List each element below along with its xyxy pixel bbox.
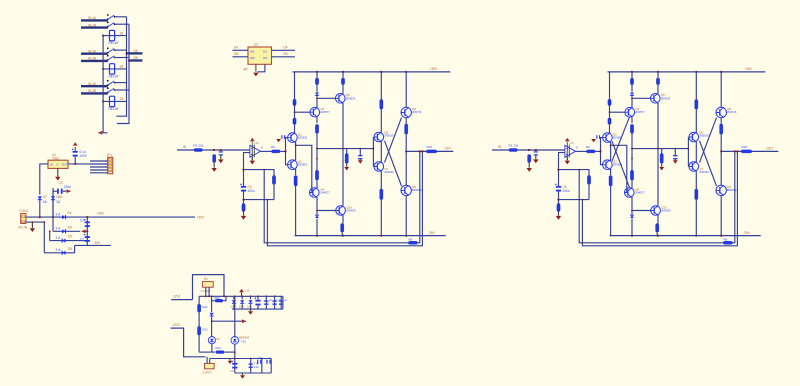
- svg-text:R1 22k: R1 22k: [194, 143, 204, 147]
- svg-text:470u: 470u: [258, 356, 264, 360]
- svg-text:2N3716: 2N3716: [412, 110, 422, 114]
- wire psu row352: [199, 351, 215, 353]
- svg-text:OUT: OUT: [445, 147, 452, 151]
- svg-text:IN: IN: [50, 163, 53, 167]
- value R20: [215, 296, 221, 300]
- svg-text:U2: U2: [254, 43, 258, 47]
- net label U2 out1: [283, 46, 288, 50]
- svg-text:2N3716: 2N3716: [727, 110, 737, 114]
- wire cross 1R: [700, 141, 717, 186]
- wire col5 dL: [405, 196, 407, 236]
- resistor R6L: [293, 99, 296, 105]
- wire QB QC linkR: [610, 142, 612, 161]
- power port +12V psu: [239, 289, 244, 292]
- wire to basesR: [595, 150, 600, 152]
- refdes Qps1: [215, 337, 220, 341]
- value C4: [80, 150, 86, 154]
- junction fb midR: [557, 199, 559, 201]
- wire U1 gnd: [57, 168, 59, 176]
- junction row358 b: [250, 358, 252, 360]
- refdes C6R: [563, 185, 567, 189]
- wire col1 cR: [609, 124, 611, 133]
- wire row4 drop: [43, 222, 45, 253]
- refdes Dps2: [239, 305, 244, 309]
- wire rect row4: [44, 245, 74, 252]
- wire col4 aR: [695, 72, 697, 100]
- wire select out A: [127, 52, 143, 54]
- svg-text:IN2: IN2: [250, 56, 255, 60]
- value R5L: [409, 237, 413, 241]
- diode D8: [62, 251, 65, 255]
- wire Rbias stemR: [661, 149, 663, 154]
- transistor Q8R: [716, 107, 726, 118]
- value Q4L: [320, 191, 330, 195]
- diode D9L: [315, 92, 319, 95]
- wire JP1 pin1: [90, 160, 108, 162]
- ground CON1: [30, 228, 35, 232]
- wire fb tap1bR: [733, 151, 735, 242]
- junction rail top x381.3L: [380, 71, 382, 73]
- wire QD base pathL: [296, 145, 312, 192]
- wire R2 botR: [528, 163, 530, 168]
- junction relay K2 left: [102, 68, 104, 70]
- svg-text:2N4577: 2N4577: [635, 110, 645, 114]
- diode D9R: [630, 92, 634, 95]
- value C3: [64, 185, 72, 189]
- junction base midL: [284, 150, 286, 152]
- relay coil K1: [110, 30, 115, 40]
- resistor R14L: [405, 124, 408, 134]
- value R15R: [742, 145, 748, 149]
- refdes D12: [239, 336, 250, 340]
- junction fb topL: [242, 169, 244, 171]
- fuse label 2A row1: [56, 212, 62, 216]
- svg-text:D4: D4: [68, 211, 72, 215]
- IC U2: [248, 47, 272, 64]
- refdes Q8L: [412, 107, 416, 111]
- wire col3 bR: [657, 85, 659, 94]
- svg-text:2 A: 2 A: [56, 248, 62, 252]
- svg-text:+35V: +35V: [745, 67, 753, 71]
- transistor Q1L: [288, 133, 298, 143]
- wire relay common vertical: [103, 36, 107, 133]
- net label IN1A: [88, 16, 97, 20]
- capacitor C1: [84, 219, 90, 227]
- wire K1 pin b: [208, 287, 210, 296]
- wire X basesL: [372, 137, 374, 167]
- junction CON1 pin2: [32, 221, 34, 223]
- ground op-ampL: [250, 161, 255, 165]
- capacitor Q1 baseL: [281, 135, 285, 139]
- svg-text:2-SPDT: 2-SPDT: [202, 370, 212, 374]
- net label OUTR: [766, 147, 773, 151]
- refdes Q3R: [635, 107, 639, 111]
- svg-text:2N4033: 2N4033: [661, 209, 671, 213]
- wire R20 row: [212, 300, 215, 302]
- svg-text:1B: 1B: [120, 97, 124, 101]
- svg-text:R3: R3: [586, 145, 590, 149]
- capacitor CinL: [219, 151, 223, 155]
- svg-text:2N4577: 2N4577: [635, 191, 645, 195]
- fuse label 2A row4: [56, 248, 62, 252]
- wire col2 bL: [316, 85, 318, 92]
- wire col5 cL: [405, 134, 407, 185]
- value R1L: [194, 143, 204, 147]
- svg-text:R23: R23: [216, 346, 222, 350]
- resistor R10L: [315, 124, 318, 133]
- resistor R23: [216, 351, 224, 354]
- svg-text:D11: D11: [215, 337, 220, 341]
- svg-text:R22: R22: [203, 327, 209, 331]
- diode D6: [62, 229, 65, 233]
- wire QA baseL: [295, 111, 311, 113]
- svg-text:1N4: 1N4: [247, 305, 252, 309]
- refdes Q8R: [727, 107, 731, 111]
- wire op-amp vccL: [251, 142, 253, 160]
- svg-text:RELAY: RELAY: [109, 75, 120, 79]
- transistor Q2L: [288, 160, 298, 170]
- svg-text:2N5551: 2N5551: [298, 136, 308, 140]
- resistor R6R: [608, 99, 611, 105]
- fuse label 2A row2: [56, 227, 62, 231]
- svg-text:JP1: JP1: [107, 153, 113, 157]
- label relay K1 value: [109, 41, 120, 45]
- wire col1 bR: [609, 106, 611, 119]
- wire col1 cL: [294, 124, 296, 133]
- net label inputL: [183, 145, 187, 149]
- transistor Q1R: [603, 133, 613, 143]
- junction tap2 cornerR: [582, 199, 584, 201]
- svg-text:MBR360: MBR360: [239, 336, 250, 340]
- wire psu colL c: [198, 335, 200, 352]
- ground R4L: [241, 216, 246, 220]
- wire arrow row: [212, 320, 243, 322]
- wire K1 feed: [171, 299, 192, 301]
- resistor R9R: [630, 78, 633, 85]
- power port +12V arrow: [73, 142, 78, 145]
- transistor Q5R: [651, 94, 661, 104]
- wire fb verticalL: [244, 153, 250, 187]
- wire col3 bL: [342, 85, 344, 94]
- power port 0V arrow: [81, 230, 86, 234]
- ground bias bR: [673, 160, 678, 163]
- wire cross 2L: [385, 118, 402, 163]
- transistor Q6R: [689, 132, 699, 142]
- svg-text:IN-3B: IN-3B: [88, 89, 96, 93]
- wire Dps3 top: [250, 296, 252, 299]
- refdes D8A: [56, 195, 63, 199]
- wire col4 cR: [695, 142, 697, 163]
- power port arrow right: [242, 319, 247, 323]
- svg-text:12V1: 12V1: [173, 295, 181, 299]
- net label -VL: [428, 231, 436, 235]
- wire psu colL b: [198, 312, 200, 326]
- wire input 2A: [81, 53, 108, 55]
- refdes D7: [43, 195, 47, 199]
- junction output nodeR: [720, 150, 722, 152]
- value D8A: [56, 200, 61, 204]
- transistor Q2R: [603, 160, 613, 170]
- value Q1R: [613, 136, 623, 140]
- label relay K2: [120, 65, 124, 69]
- value Cps3b: [254, 365, 259, 369]
- connector JP1 header: [108, 157, 113, 173]
- net label OUTL: [445, 147, 452, 151]
- wire psu colL a: [198, 296, 200, 304]
- switch S2B: [107, 55, 116, 61]
- capacitor Cbank3: [279, 300, 283, 304]
- net label +V mid: [97, 212, 105, 216]
- svg-text:100V: 100V: [80, 154, 88, 158]
- wire outputL: [406, 150, 426, 152]
- svg-text:2 A: 2 A: [56, 212, 62, 216]
- net label SEL-A: [134, 49, 139, 53]
- capacitor C4 bypass: [72, 149, 78, 157]
- diode D4: [62, 215, 65, 219]
- wire output bL: [437, 150, 454, 152]
- junction bias bL: [359, 148, 361, 150]
- refdes Cps2: [230, 369, 234, 373]
- junction bias cL: [316, 148, 318, 150]
- wire -V railL: [295, 235, 446, 237]
- value C6L: [248, 189, 255, 193]
- svg-text:2N5551: 2N5551: [298, 163, 308, 167]
- value Cps3: [254, 361, 259, 365]
- value Q5L: [346, 96, 356, 100]
- wire col4 dR: [695, 171, 697, 189]
- wire psu colD: [261, 359, 263, 374]
- transistor Q9L: [401, 185, 411, 196]
- refdes Q5L: [346, 93, 350, 97]
- junction QD base pathL: [295, 144, 297, 146]
- wire col2 fR: [631, 197, 633, 214]
- refdes Q2L: [298, 160, 302, 164]
- net label +12V: [245, 288, 250, 292]
- value Q3R: [635, 110, 645, 114]
- svg-text:C10: C10: [254, 365, 259, 369]
- svg-text:-35V: -35V: [743, 231, 751, 235]
- wire R18 botL: [273, 184, 275, 199]
- wire first cross 1R: [612, 141, 630, 187]
- ground U1: [55, 177, 60, 181]
- junction row1 D7col: [39, 216, 41, 218]
- junction relay K1 left: [102, 35, 104, 37]
- net label -V rail: [94, 241, 102, 245]
- wire psu rail1: [199, 295, 283, 297]
- label relay K3 value: [109, 107, 120, 111]
- junction rail bot x406.2L: [405, 235, 407, 237]
- wire col2 eR: [631, 133, 633, 170]
- wire input 1A: [81, 19, 108, 21]
- wire bias rowL: [317, 148, 373, 150]
- connector CON1: [21, 214, 26, 224]
- wire C3 right: [63, 190, 67, 192]
- junction rail bot x406.2R: [720, 235, 722, 237]
- resistor R13L: [380, 189, 383, 200]
- junction fb out aR: [734, 150, 736, 152]
- wire Rbias gnd stemR: [661, 163, 663, 167]
- junction colM row: [211, 320, 213, 322]
- net label U2 pin2: [234, 52, 238, 56]
- wire rail2 gnd stem: [250, 309, 252, 311]
- wire rect row3: [50, 240, 88, 242]
- net label -VR: [743, 231, 751, 235]
- svg-text:2N4033: 2N4033: [699, 170, 709, 174]
- wire col2 eL: [316, 133, 318, 170]
- value Q1L: [298, 136, 308, 140]
- resistor R10BR: [630, 170, 633, 180]
- junction tap1 cornerR: [578, 169, 580, 171]
- ground R2R: [527, 168, 532, 172]
- wire col1 bL: [294, 106, 296, 119]
- junction bus A group2: [125, 52, 127, 54]
- refdes Q5R: [661, 93, 665, 97]
- wire col4 eL: [380, 200, 382, 236]
- label relay K3: [120, 97, 124, 101]
- junction rail bot x343R: [657, 235, 659, 237]
- refdes Q4L: [320, 187, 324, 191]
- junction QA base nodeR: [609, 111, 611, 113]
- svg-text:1B: 1B: [120, 65, 124, 69]
- wire col1 dL: [295, 169, 297, 175]
- refdes K1: [204, 277, 208, 281]
- label relay K1: [120, 31, 124, 35]
- svg-text:220u: 220u: [64, 185, 72, 189]
- net label +VL: [430, 67, 438, 71]
- power port AGND left arrow: [98, 131, 103, 135]
- capacitor C6L: [240, 184, 246, 192]
- junction col2 midR: [631, 158, 633, 160]
- wire fb tap1L: [244, 170, 275, 176]
- diode Dps4: [210, 313, 214, 316]
- ground bias aR: [659, 167, 664, 170]
- value C6R: [563, 189, 570, 193]
- resistor R7R: [608, 118, 611, 124]
- svg-text:C1: C1: [80, 219, 84, 223]
- wire op-amp veeL: [251, 157, 253, 160]
- svg-text:12V2: 12V2: [172, 323, 180, 327]
- voltage regulator U1 7812: [48, 160, 68, 168]
- junction rail bot x343L: [342, 235, 344, 237]
- junction rail top x343R: [657, 71, 659, 73]
- capacitor C2: [84, 234, 90, 242]
- ground psu bottom: [240, 375, 245, 378]
- resistor R18 feedbackR: [587, 175, 590, 184]
- wire C4 to out: [74, 157, 76, 164]
- wire input 2R: [518, 149, 565, 151]
- capacitor C6R: [555, 184, 561, 192]
- wire C1C2 column: [86, 217, 88, 245]
- resistor R17L: [341, 224, 344, 233]
- svg-text:IN1: IN1: [250, 49, 255, 53]
- resistor R5 feedbackR: [723, 241, 732, 244]
- refdes Q1L: [298, 132, 302, 136]
- label U2 type: [244, 67, 249, 71]
- wire Q10 baseL: [317, 210, 336, 212]
- svg-text:+35V: +35V: [97, 212, 105, 216]
- value Q3L: [320, 110, 330, 114]
- junction rail1 x209.1: [208, 295, 210, 297]
- value Q10R: [661, 209, 671, 213]
- svg-text:AC-IN: AC-IN: [19, 226, 28, 230]
- junction rail bot x317L: [316, 235, 318, 237]
- wire -V railR: [610, 235, 761, 237]
- wire select out B: [129, 59, 142, 61]
- refdes Q10R: [661, 205, 667, 209]
- wire first cross 2R: [612, 117, 630, 161]
- wire inputL: [177, 149, 194, 151]
- capacitor Cps4: [257, 360, 261, 364]
- wire fb down1R: [579, 170, 723, 243]
- resistor R2R: [528, 155, 531, 163]
- resistor R3L: [272, 150, 281, 153]
- svg-text:4R: 4R: [244, 67, 249, 71]
- net label IN2B: [88, 57, 96, 61]
- junction X baseR: [688, 148, 690, 150]
- svg-text:R15: R15: [742, 145, 748, 149]
- relay K1 coil box: [202, 282, 213, 288]
- refdes C2: [80, 237, 84, 241]
- junction rail top x381.3R: [695, 71, 697, 73]
- value Q4R: [635, 191, 645, 195]
- refdes Q7L: [384, 167, 388, 171]
- wire op-amp outL: [261, 150, 272, 152]
- wire S3A common to bus: [115, 82, 127, 84]
- wire col1 dR: [610, 169, 612, 175]
- resistor R20: [215, 299, 223, 302]
- wire col4 bR: [695, 109, 697, 133]
- wire col3 aL: [342, 72, 344, 78]
- wire row3 drop: [49, 231, 51, 240]
- junction rail1 x242.2: [241, 295, 243, 297]
- wire input 2B: [81, 60, 108, 62]
- svg-text:BDW93C: BDW93C: [727, 188, 738, 192]
- svg-text:C9: C9: [230, 369, 234, 373]
- wire S1B common to bus: [115, 23, 129, 25]
- wire col3 dR: [657, 215, 659, 223]
- value 7812: [52, 157, 59, 161]
- net label +VR: [745, 67, 753, 71]
- wire R4 botL: [243, 212, 245, 216]
- junction output nodeL: [405, 150, 407, 152]
- svg-text:R3: R3: [271, 145, 275, 149]
- junction rail bot x317R: [631, 235, 633, 237]
- wire psu colR a: [234, 296, 236, 337]
- wire C7 stemR: [674, 149, 676, 155]
- wire K1 pin a: [205, 287, 207, 296]
- net label 12V-1: [173, 295, 181, 299]
- wire cross 2R: [700, 118, 717, 163]
- wire C4 to power: [74, 147, 76, 151]
- net label SEL-B: [134, 56, 138, 60]
- net label IN3B: [88, 89, 96, 93]
- wire input 2L: [203, 149, 250, 151]
- wire +12V stem: [241, 292, 243, 296]
- switch S2A: [107, 47, 116, 53]
- resistor R17R: [656, 224, 659, 233]
- value Q5R: [661, 96, 671, 100]
- wire C7 stemL: [359, 149, 361, 155]
- svg-text:2 A: 2 A: [56, 236, 62, 240]
- switch S1B: [107, 22, 116, 28]
- wire col3 cL: [342, 103, 344, 206]
- wire U2 out1: [272, 49, 296, 51]
- svg-text:R21: R21: [203, 305, 209, 309]
- svg-text:+35V: +35V: [197, 215, 205, 219]
- wire Q5 baseR: [632, 97, 651, 99]
- svg-text:BDW93C: BDW93C: [412, 188, 423, 192]
- value Q2L: [298, 163, 308, 167]
